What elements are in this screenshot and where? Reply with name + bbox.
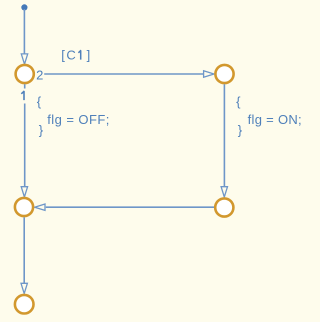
arrowhead into J3 right — [35, 204, 45, 210]
svg-text:}: } — [238, 123, 243, 138]
wire J1 to J3 lower segment — [24, 104, 26, 187]
svg-text:{: { — [236, 94, 241, 109]
svg-text:]: ] — [87, 48, 91, 63]
arrowhead into J2 left — [204, 71, 214, 77]
svg-text:flg = ON;: flg = ON; — [248, 112, 302, 127]
default transition start dot — [21, 4, 27, 10]
wire J2 to J4 — [223, 84, 225, 187]
arrowhead into J5 top — [21, 283, 27, 293]
svg-text:[C: [C — [61, 48, 77, 63]
junction J2 — [215, 65, 233, 83]
arrowhead into J4 top — [221, 187, 227, 197]
arrowhead into J3 top — [21, 187, 27, 197]
svg-text:flg = OFF;: flg = OFF; — [47, 112, 110, 127]
junction J3 — [15, 198, 33, 216]
arrowhead into J1 top — [21, 54, 27, 64]
junction J5 — [15, 295, 34, 314]
wire J4 to J3 — [46, 206, 214, 208]
svg-text:2: 2 — [36, 68, 43, 83]
junction J1 — [16, 65, 34, 83]
wire default transition — [23, 9, 25, 54]
svg-text:}: } — [39, 123, 44, 138]
wire J1 to J3 upper segment — [24, 84, 26, 88]
junction J4 — [215, 198, 233, 216]
wire J1 to J2 — [44, 73, 203, 75]
wire J3 to J5 — [23, 217, 25, 283]
label 1 — [21, 91, 24, 100]
svg-text:{: { — [37, 94, 42, 109]
